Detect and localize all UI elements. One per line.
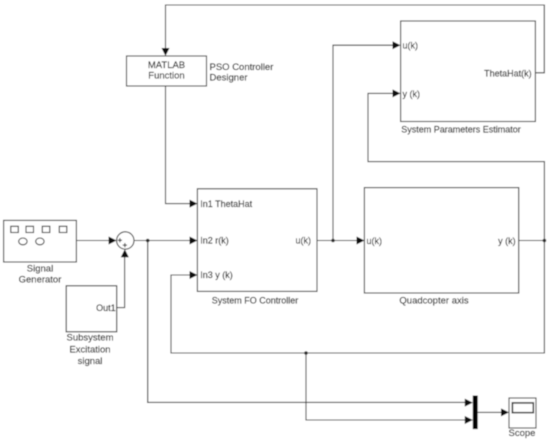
svg-text:Signal: Signal xyxy=(27,263,53,274)
svg-text:Scope: Scope xyxy=(509,428,536,439)
svg-text:Out1: Out1 xyxy=(96,303,116,313)
svg-text:MATLAB: MATLAB xyxy=(148,60,185,71)
svg-text:u(k): u(k) xyxy=(296,236,312,246)
svg-text:Excitation: Excitation xyxy=(69,344,110,355)
svg-text:Subsystem: Subsystem xyxy=(67,333,114,344)
svg-text:y (k): y (k) xyxy=(498,236,516,246)
svg-text:System FO Controller: System FO Controller xyxy=(212,295,299,305)
svg-text:Generator: Generator xyxy=(19,275,62,286)
svg-text:In2 r(k): In2 r(k) xyxy=(200,236,229,246)
svg-text:signal: signal xyxy=(78,356,103,367)
svg-text:System Parameters Estimator: System Parameters Estimator xyxy=(401,124,521,134)
svg-text:In3 y (k): In3 y (k) xyxy=(200,270,233,280)
svg-text:Function: Function xyxy=(148,71,184,82)
svg-text:u(k): u(k) xyxy=(367,236,383,246)
svg-text:PSO Controller: PSO Controller xyxy=(210,62,274,73)
svg-text:Designer: Designer xyxy=(210,72,248,83)
svg-text:ThetaHat(k): ThetaHat(k) xyxy=(484,69,532,79)
svg-text:u(k): u(k) xyxy=(403,41,419,51)
svg-text:Quadcopter axis: Quadcopter axis xyxy=(399,295,468,306)
svg-text:y (k): y (k) xyxy=(403,89,421,99)
svg-text:In1 ThetaHat: In1 ThetaHat xyxy=(200,199,252,209)
